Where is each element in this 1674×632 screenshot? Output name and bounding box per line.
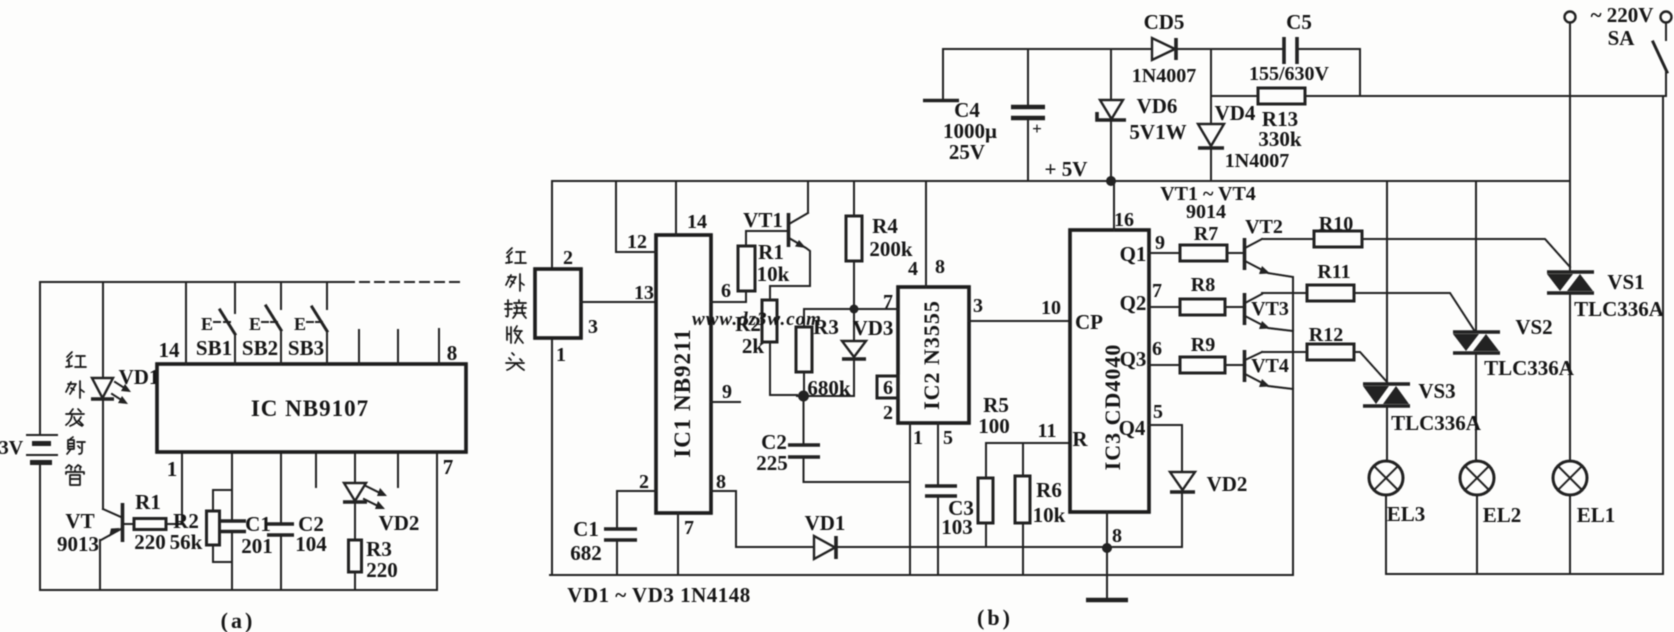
node pin8 junction [1102, 543, 1112, 553]
wire VS1 to EL1 [1569, 293, 1571, 461]
svg-text:7: 7 [883, 291, 893, 313]
svg-text:4: 4 [908, 258, 918, 280]
stub pins bottom of IC [316, 452, 398, 487]
capacitor C2 225 [756, 396, 910, 482]
node R2/R3/C2 junction [798, 391, 809, 402]
svg-text:VS2: VS2 [1515, 315, 1552, 339]
svg-text:5V1W: 5V1W [1129, 120, 1186, 144]
resistor R7 [1180, 223, 1243, 261]
svg-text:VS3: VS3 [1418, 379, 1455, 403]
svg-text:VD1: VD1 [805, 511, 846, 535]
svg-text:14: 14 [687, 211, 707, 233]
svg-text:10: 10 [1041, 297, 1061, 319]
svg-text:103: 103 [941, 515, 973, 539]
svg-text:8: 8 [1112, 525, 1122, 547]
svg-text:2: 2 [883, 402, 893, 424]
diode VD2 [1107, 472, 1247, 547]
transistor VT3 [1245, 293, 1308, 331]
svg-text:R10: R10 [1319, 213, 1353, 235]
svg-text:+: + [1032, 119, 1042, 138]
diode VD1 [805, 511, 846, 559]
resistor R5 100 [978, 393, 1010, 547]
wire bottom rail (b) [550, 574, 1293, 576]
svg-text:Q4: Q4 [1119, 416, 1146, 440]
lamp EL3 [1369, 461, 1425, 574]
terminal stub plate [923, 49, 959, 101]
svg-text:VD2: VD2 [1207, 472, 1248, 496]
terminal ~220V left [1565, 12, 1576, 23]
resistor R2 2k [735, 300, 797, 395]
svg-text:3: 3 [588, 316, 598, 338]
wire EL2 column [1475, 181, 1477, 461]
svg-text:201: 201 [241, 534, 273, 558]
wire top rail (a) [40, 281, 343, 283]
svg-text:C5: C5 [1286, 10, 1312, 34]
wire IC1 pin8 to VD1 [711, 491, 814, 547]
lamp EL1 [1553, 461, 1615, 574]
svg-text:TLC336A: TLC336A [1484, 356, 1575, 380]
svg-text:R12: R12 [1309, 324, 1343, 346]
wire pin14 [185, 282, 187, 364]
LED VD1 [91, 365, 159, 404]
wire receiver branch [551, 181, 553, 575]
op IC NB9107 box [157, 364, 466, 452]
svg-text:SB3: SB3 [288, 336, 324, 360]
svg-text:VD3: VD3 [853, 316, 894, 340]
svg-text:3: 3 [973, 295, 983, 317]
svg-text:1N4007: 1N4007 [1225, 150, 1289, 172]
switch SA [1653, 23, 1667, 96]
wire IC2 pins 4,8 [925, 181, 927, 287]
svg-text:VT: VT [65, 509, 94, 533]
wire receiver pin3 to IC1 pin13 [581, 301, 656, 303]
wire IC1 pin12 [616, 181, 656, 252]
resistor R10 [1314, 213, 1570, 267]
svg-text:7: 7 [443, 455, 454, 479]
resistor R6 10k [1015, 443, 1066, 575]
resistor R11 [1307, 261, 1474, 330]
svg-text:1N4007: 1N4007 [1132, 65, 1196, 87]
svg-text:(a): (a) [221, 608, 256, 632]
svg-text:6: 6 [883, 377, 893, 399]
svg-text:CD5: CD5 [1144, 10, 1185, 34]
battery 3V [0, 435, 57, 463]
svg-text:IC NB9107: IC NB9107 [251, 396, 369, 421]
wire IC3 pin7 Q2 [1149, 306, 1180, 308]
transistor VT 9013 [57, 503, 123, 590]
wire IC3 pin6 Q3 [1149, 364, 1180, 366]
svg-text:Q2: Q2 [1120, 291, 1147, 315]
triac VS1 TLC336A [1547, 270, 1665, 321]
svg-text:1: 1 [913, 427, 923, 449]
svg-text:~ 220V: ~ 220V [1591, 3, 1654, 27]
svg-text:VT2: VT2 [1245, 216, 1283, 238]
resistor R12 [1307, 324, 1387, 382]
svg-text:220: 220 [134, 530, 166, 554]
triac VS2 TLC336A [1453, 315, 1575, 380]
svg-text:VT1: VT1 [743, 208, 783, 232]
resistor R9 [1180, 334, 1243, 373]
wire IC pin7 right [436, 452, 438, 590]
svg-text:6: 6 [721, 280, 731, 302]
svg-text:16: 16 [1114, 209, 1134, 231]
ground [1086, 598, 1128, 603]
wire IC2 pin7 [854, 308, 898, 310]
svg-text:9013: 9013 [57, 532, 99, 556]
wire 220V neutral down [1569, 23, 1571, 272]
svg-text:8: 8 [716, 471, 726, 493]
svg-text:VD1 ~ VD3 1N4148: VD1 ~ VD3 1N4148 [567, 583, 751, 607]
svg-text:10k: 10k [757, 262, 790, 286]
wire IC pin1 to R1 [181, 452, 183, 524]
svg-text:EL3: EL3 [1387, 502, 1426, 526]
resistor R3 220 [349, 537, 398, 590]
wire VD1 branch [102, 282, 104, 509]
op IC3 CD4040 box [1070, 230, 1149, 512]
svg-text:225: 225 [756, 451, 788, 475]
svg-text:CP: CP [1075, 310, 1103, 334]
op IC1 NB9211 box [656, 235, 711, 513]
svg-text:1: 1 [167, 457, 178, 481]
svg-text:220: 220 [366, 558, 398, 582]
svg-text:8: 8 [935, 256, 945, 278]
capacitor C1 682 [570, 517, 637, 575]
svg-text:VD2: VD2 [379, 511, 420, 535]
svg-text:+ 5V: + 5V [1045, 157, 1088, 181]
resistor R3 680k [796, 309, 854, 400]
svg-text:SB1: SB1 [196, 336, 232, 360]
svg-text:R8: R8 [1191, 274, 1215, 296]
wire bottom rail (a) [40, 589, 437, 591]
svg-text:11: 11 [1038, 420, 1057, 442]
svg-text:C1: C1 [573, 517, 599, 541]
wire IC1 pin7 [677, 513, 679, 575]
svg-text:E: E [201, 314, 213, 334]
svg-text:R1: R1 [135, 490, 161, 514]
svg-text:5: 5 [1153, 401, 1163, 423]
diode VD4 1N4007 [1198, 49, 1289, 181]
capacitor C4 1000u 25V [943, 49, 1045, 181]
wire IC3 pin5 Q4 to VD2 [1149, 425, 1182, 472]
wire left rail (a) [39, 282, 41, 590]
svg-text:TLC336A: TLC336A [1574, 297, 1665, 321]
svg-text:1: 1 [556, 344, 566, 366]
wire EL3 column [1386, 181, 1388, 461]
transistor VT1 [743, 181, 810, 300]
svg-text:VD6: VD6 [1137, 94, 1178, 118]
label 红外接收头 [505, 248, 526, 370]
svg-text:155/630V: 155/630V [1249, 63, 1330, 85]
svg-text:8: 8 [447, 341, 458, 365]
wire IC3 pin16 [1113, 181, 1115, 230]
svg-text:EL1: EL1 [1577, 503, 1616, 527]
svg-text:(b): (b) [977, 605, 1013, 630]
resistor R4 200k [846, 181, 913, 309]
svg-text:E: E [249, 314, 261, 334]
svg-text:Q3: Q3 [1120, 347, 1147, 371]
svg-text:100: 100 [978, 414, 1010, 438]
wire IC3 pin11 R [986, 442, 1070, 444]
svg-text:R6: R6 [1036, 478, 1062, 502]
transistor VT2 [1245, 216, 1315, 575]
svg-text:R4: R4 [872, 214, 898, 238]
svg-text:VT4: VT4 [1251, 355, 1289, 377]
wire IC2 pin5 to C3 [937, 423, 939, 575]
wire lamp bottom rail [1386, 96, 1663, 574]
svg-text:IC2 N3555: IC2 N3555 [919, 300, 944, 410]
svg-text:C1: C1 [245, 512, 271, 536]
svg-text:56k: 56k [170, 530, 203, 554]
svg-text:VD4: VD4 [1215, 101, 1256, 125]
wire IC3 pin9 Q1 [1149, 252, 1180, 254]
wire 220V live rail [1211, 95, 1666, 97]
svg-text:3V: 3V [0, 437, 24, 459]
svg-text:2k: 2k [742, 334, 765, 358]
wire IC1 pin2 to C1 [617, 491, 656, 529]
svg-text:TLC336A: TLC336A [1391, 411, 1482, 435]
svg-text:682: 682 [570, 541, 602, 565]
terminal ~220V right [1661, 12, 1672, 23]
wire IC3 pin8 to ground [1106, 512, 1108, 599]
diode VD3 [842, 309, 893, 396]
triac VS3 TLC336A [1363, 379, 1482, 435]
label 红外发射管 (infrared emitting tube) [66, 352, 86, 485]
diode CD5 1N4007 [1132, 10, 1196, 87]
svg-text:9: 9 [722, 381, 732, 403]
switch SB3 [288, 282, 327, 364]
wire IC1 pin9 stub [711, 401, 740, 403]
svg-text:6: 6 [1152, 338, 1162, 360]
switch SB2 [242, 282, 281, 364]
resistor R2 56k [170, 490, 232, 562]
wire top rail dashed (a) [345, 281, 462, 283]
stub pins top of IC [359, 329, 439, 364]
op IC2 N3555 box [898, 287, 969, 423]
wire IC1 pin6 [711, 301, 746, 303]
svg-text:13: 13 [634, 282, 654, 304]
zener VD6 5V1W [1097, 49, 1187, 181]
svg-text:EL2: EL2 [1483, 503, 1522, 527]
wire top DC rail [943, 49, 1360, 96]
svg-text:R7: R7 [1194, 223, 1218, 245]
svg-text:VS1: VS1 [1607, 270, 1644, 294]
pin 6 boxed label IC2 [877, 376, 898, 399]
resistor R8 [1180, 274, 1243, 315]
transistor VT4 [1245, 350, 1308, 389]
LED VD2 [343, 452, 419, 540]
wire IC2 pin3 to IC3 CP [969, 320, 1070, 322]
svg-text:25V: 25V [949, 140, 985, 164]
wire VD1 to ground node [836, 546, 1107, 548]
svg-text:R: R [1072, 427, 1088, 451]
svg-text:VT3: VT3 [1251, 298, 1289, 320]
svg-text:VD1: VD1 [119, 365, 160, 389]
switch SB1 [196, 282, 235, 364]
svg-text:IC1 NB9211: IC1 NB9211 [670, 328, 695, 458]
svg-text:9: 9 [1155, 232, 1165, 254]
node +5V/VD6 junction [1106, 176, 1116, 186]
capacitor C2 104 [267, 452, 327, 590]
svg-text:12: 12 [627, 231, 647, 253]
capacitor C1 201 [219, 452, 273, 590]
capacitor C3 103 [925, 486, 974, 539]
box infrared receiver head [535, 269, 581, 338]
lamp EL2 [1460, 461, 1521, 574]
resistor R13 330k [1258, 88, 1305, 151]
wire node to VD3 bottom [797, 395, 854, 397]
wire +5V rail [552, 180, 1570, 182]
wire IC2 pin1 [909, 423, 911, 575]
svg-text:R11: R11 [1317, 261, 1350, 283]
svg-text:200k: 200k [869, 237, 913, 261]
svg-text:2: 2 [639, 471, 649, 493]
svg-text:9014: 9014 [1186, 201, 1226, 223]
resistor R1 220 [124, 490, 182, 554]
svg-text:www.dz3w.com: www.dz3w.com [692, 309, 822, 330]
svg-text:5: 5 [943, 427, 953, 449]
resistor R1 10k [738, 231, 790, 302]
svg-text:R9: R9 [1191, 334, 1215, 356]
svg-text:E: E [294, 314, 306, 334]
svg-text:7: 7 [684, 517, 694, 539]
svg-text:14: 14 [159, 338, 181, 362]
node pin7/R4/VD3 junction [850, 305, 859, 314]
capacitor C5 155/630V [1249, 10, 1330, 85]
svg-text:2: 2 [563, 247, 573, 269]
svg-text:SA: SA [1608, 26, 1636, 50]
wire IC1 pin14 [675, 181, 677, 235]
svg-text:Q1: Q1 [1120, 242, 1147, 266]
svg-text:330k: 330k [1258, 127, 1302, 151]
svg-text:SB2: SB2 [242, 336, 278, 360]
svg-text:104: 104 [295, 532, 327, 556]
svg-text:7: 7 [1152, 280, 1162, 302]
svg-text:10k: 10k [1033, 503, 1066, 527]
svg-text:R1: R1 [758, 240, 784, 264]
